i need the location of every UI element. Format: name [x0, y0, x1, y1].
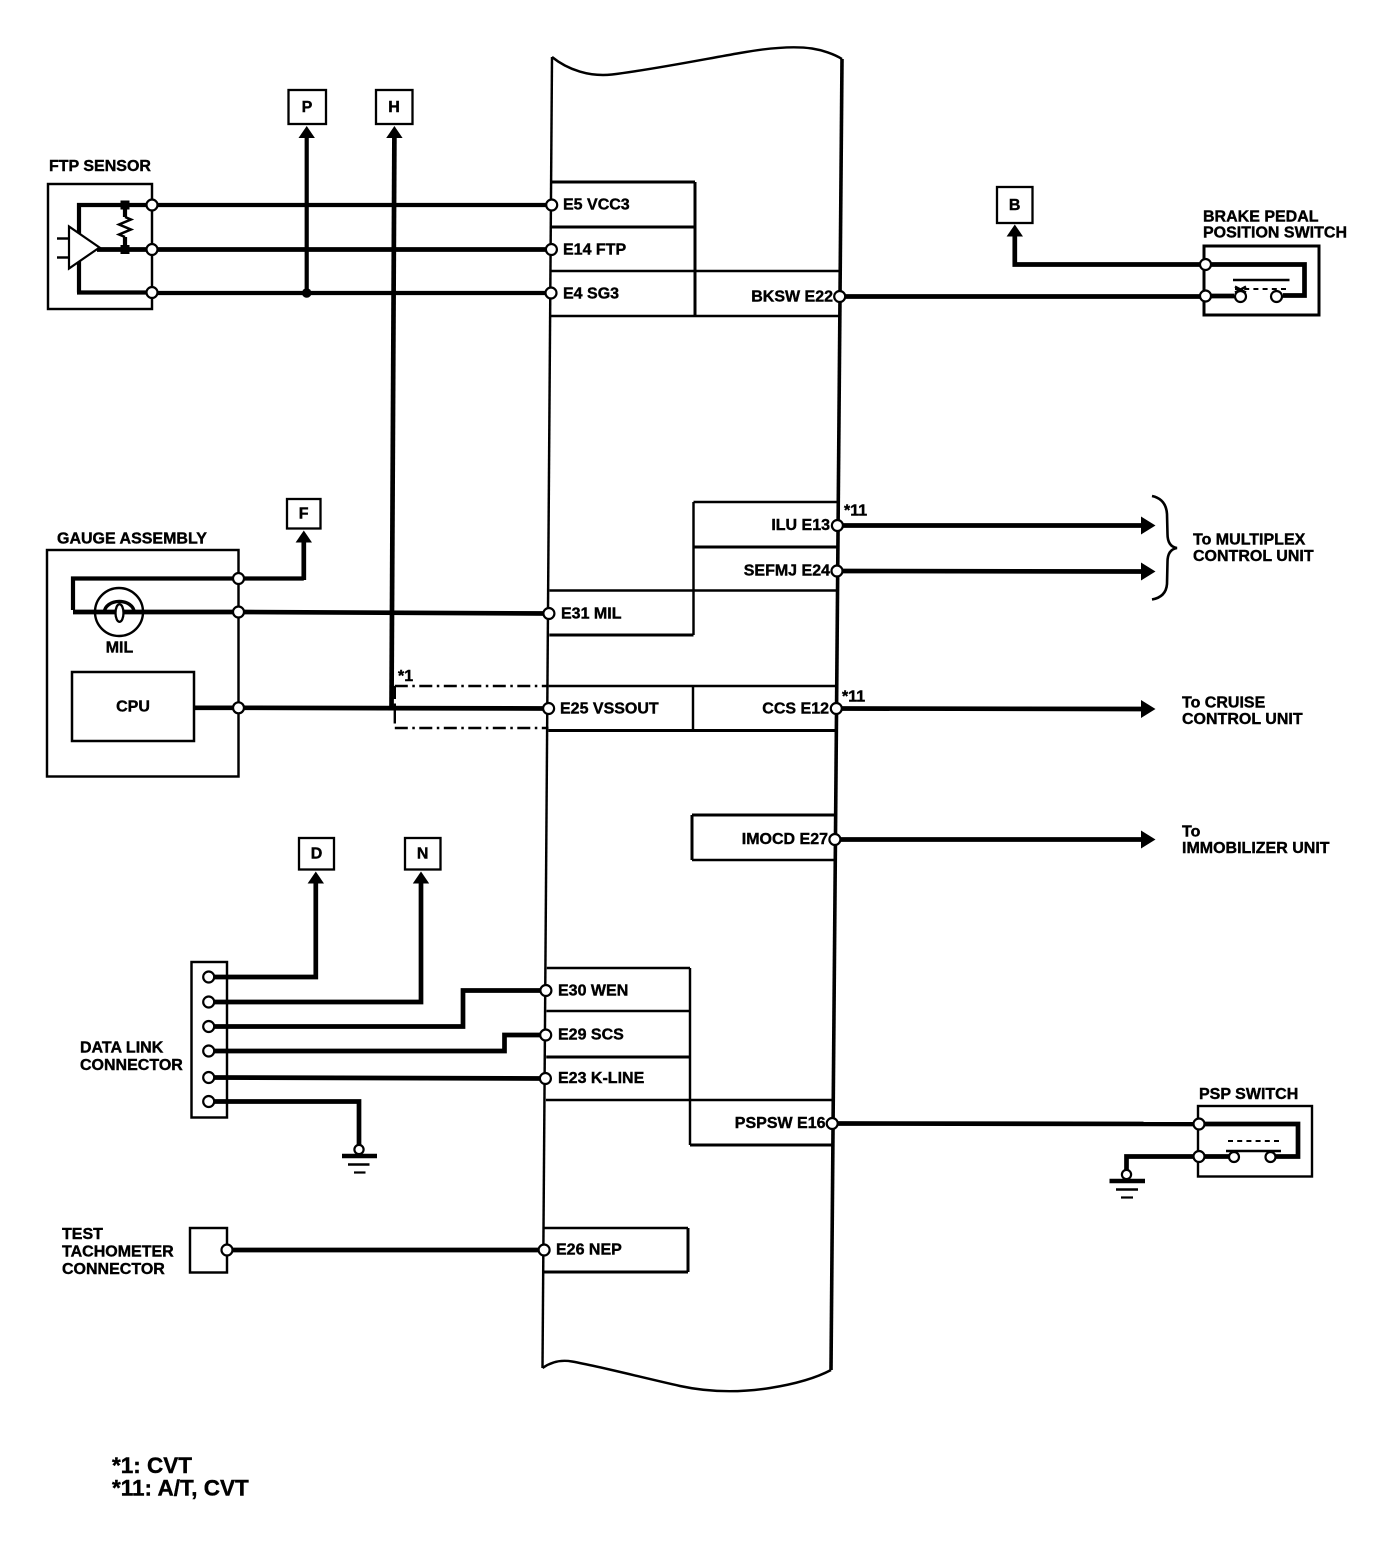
pin circle E29 SCS	[540, 1030, 551, 1041]
E23/PSPSW row line full width	[546, 1099, 833, 1101]
svg-text:SEFMJ E24: SEFMJ E24	[744, 563, 830, 580]
brake switch upper bar	[1233, 279, 1290, 281]
wire PSP switch to ground	[1127, 1157, 1200, 1171]
connector N box	[405, 838, 441, 870]
gauge internal wire to F	[73, 579, 239, 611]
svg-text:P: P	[302, 99, 313, 116]
svg-text:CPU: CPU	[116, 699, 150, 716]
svg-text:B: B	[1009, 197, 1021, 214]
svg-text:*1: CVT: *1: CVT	[112, 1453, 192, 1478]
PSP switch internal wire	[1199, 1124, 1298, 1157]
wire ILU E13 to multiplex	[837, 523, 1142, 528]
wire DLC pin5 to E23 K-LINE	[209, 1078, 546, 1079]
wire CPU to E25 VSSOUT	[244, 705, 549, 710]
PSP switch box	[1198, 1106, 1312, 1177]
data link connector box	[192, 962, 228, 1118]
FTP sensor pin 3	[147, 287, 158, 298]
svg-text:TACHOMETER: TACHOMETER	[62, 1244, 174, 1261]
ILU/SEFMJ row separator	[694, 546, 838, 549]
svg-text:FTP SENSOR: FTP SENSOR	[49, 158, 151, 175]
svg-text:BKSW E22: BKSW E22	[751, 289, 833, 306]
wire to connector P	[305, 135, 309, 293]
svg-text:E29 SCS: E29 SCS	[558, 1027, 624, 1044]
svg-text:H: H	[388, 99, 400, 116]
svg-text:DATA LINK: DATA LINK	[80, 1040, 164, 1057]
SEFMJ/E31 row line full width	[550, 589, 838, 591]
brake switch contact 1	[1235, 291, 1246, 302]
svg-text:E26 NEP: E26 NEP	[556, 1242, 622, 1259]
svg-text:E14 FTP: E14 FTP	[563, 242, 626, 259]
pin circle CCS E12	[831, 703, 842, 714]
pin row box E5/E14/E4 top line	[552, 181, 695, 184]
PSP switch terminal 1	[1194, 1119, 1205, 1130]
svg-text:TEST: TEST	[62, 1226, 103, 1243]
PSP switch contact 2	[1266, 1152, 1276, 1162]
brake switch terminal 2	[1200, 291, 1211, 302]
wire PSPSW E16 to PSP switch	[832, 1121, 1199, 1126]
brake switch contact 2	[1271, 291, 1282, 302]
pin circle E26 NEP	[539, 1245, 550, 1256]
ILU/SEFMJ row box top	[694, 501, 838, 503]
test tachometer connector box	[190, 1228, 227, 1273]
E30-E23 rows vertical divider	[689, 968, 691, 1145]
svg-text:IMOCD E27: IMOCD E27	[742, 831, 828, 848]
connector F box	[287, 499, 321, 529]
PSPSW row bottom line	[690, 1144, 832, 1147]
IMOCD row box top	[692, 814, 835, 817]
wire CCS E12 to cruise control	[836, 706, 1142, 711]
brake switch contact pivot	[1235, 287, 1246, 293]
PSP switch upper bar	[1226, 1150, 1281, 1152]
pin circle E31 MIL	[543, 608, 554, 619]
IMOCD row box bottom	[692, 859, 835, 861]
wire DLC pin6 to ground	[209, 1102, 359, 1146]
pin circle SEFMJ E24	[832, 566, 843, 577]
DLC ground symbol	[354, 1145, 363, 1154]
pin circle E4 SG3	[546, 288, 557, 299]
E30/E29 row separator	[547, 1010, 691, 1012]
svg-text:CONNECTOR: CONNECTOR	[80, 1057, 183, 1074]
svg-text:D: D	[311, 846, 323, 863]
wire DLC pin2 to connector N	[209, 881, 421, 1002]
E25/CCS row top line	[549, 685, 837, 687]
DLC pin circles	[203, 972, 214, 983]
E26 row box top	[544, 1227, 688, 1229]
brake switch terminal 1	[1200, 259, 1211, 270]
E25/CCS row bottom line	[548, 729, 836, 732]
FTP sensor pin 1	[147, 200, 158, 211]
E26 row box right edge	[687, 1228, 690, 1272]
svg-text:MIL: MIL	[106, 640, 134, 657]
E29/E23 row separator	[546, 1056, 690, 1059]
svg-text:*11: *11	[844, 503, 867, 520]
ILU/E31 rows vertical divider	[692, 502, 694, 635]
PSP switch terminal 2	[1194, 1151, 1205, 1162]
pin circle E25 VSSOUT	[543, 703, 554, 714]
FTP sensor pin 2	[147, 244, 158, 255]
svg-text:CONNECTOR: CONNECTOR	[62, 1261, 165, 1278]
wire FTP to E4 SG3	[157, 291, 551, 295]
junction dot P on E4 SG3 wire	[302, 288, 312, 298]
ECM/PCM band right edge	[831, 59, 842, 1370]
svg-text:E23 K-LINE: E23 K-LINE	[558, 1070, 645, 1087]
svg-text:IMMOBILIZER UNIT: IMMOBILIZER UNIT	[1182, 840, 1330, 857]
wire to connector B	[1015, 234, 1206, 265]
E26 row box bottom	[544, 1271, 688, 1274]
svg-text:BRAKE PEDAL: BRAKE PEDAL	[1203, 209, 1319, 226]
amplifier input stub 2	[57, 256, 69, 258]
svg-text:To CRUISE: To CRUISE	[1182, 695, 1266, 712]
pin circle BKSW E22	[834, 291, 845, 302]
svg-text:POSITION SWITCH: POSITION SWITCH	[1203, 225, 1347, 242]
wire IMOCD E27 to immobilizer	[835, 837, 1142, 842]
wire FTP to E14 FTP	[157, 247, 551, 252]
ECM/PCM band torn top edge	[552, 47, 842, 75]
svg-text:*11: A/T, CVT: *11: A/T, CVT	[112, 1476, 249, 1501]
gauge pin 3	[233, 702, 244, 713]
pin circle E14 FTP	[546, 244, 557, 255]
svg-text:GAUGE ASSEMBLY: GAUGE ASSEMBLY	[57, 531, 207, 548]
wire DLC pin4 to E29 SCS	[209, 1035, 546, 1051]
pin row separator E14/E4 full width	[551, 270, 840, 272]
wire to connector H (down to E25 VSSOUT wire)	[392, 135, 395, 709]
E30/E29/E23 row box top	[547, 967, 690, 969]
svg-text:PSP SWITCH: PSP SWITCH	[1199, 1086, 1298, 1103]
*1 alternative wiring dash-dot box	[395, 686, 549, 728]
brace for multiplex control unit	[1152, 496, 1177, 600]
wire DLC pin3 to E30 WEN	[209, 991, 546, 1027]
E25/CCS row vertical divider	[692, 686, 694, 731]
connector D box	[299, 838, 334, 870]
MIL lamp bulb	[95, 588, 143, 636]
svg-text:F: F	[299, 506, 309, 523]
connector B box	[997, 187, 1033, 223]
pin circle E5 VCC3	[546, 200, 557, 211]
PSP switch contact 1	[1229, 1152, 1239, 1162]
pin circle IMOCD E27	[829, 834, 840, 845]
test tach connector pin	[222, 1245, 233, 1256]
wire CPU to gauge edge	[194, 705, 239, 710]
PSP switch dashed travel line	[1228, 1140, 1280, 1142]
svg-text:To MULTIPLEX: To MULTIPLEX	[1193, 532, 1306, 549]
svg-text:*1: *1	[398, 668, 413, 685]
wire to connector F	[301, 540, 306, 580]
brake switch internal wire	[1206, 265, 1305, 296]
gauge pin 2	[233, 607, 244, 618]
svg-text:To: To	[1182, 824, 1201, 841]
svg-text:E30 WEN: E30 WEN	[558, 983, 628, 1000]
FTP sensor box	[48, 184, 152, 309]
E31 row bottom line	[549, 634, 693, 637]
svg-text:ILU E13: ILU E13	[771, 517, 830, 534]
pin circle ILU E13	[832, 520, 843, 531]
svg-text:CONTROL UNIT: CONTROL UNIT	[1193, 548, 1314, 565]
wire MIL to E31 MIL	[244, 612, 549, 614]
svg-text:PSPSW E16: PSPSW E16	[735, 1115, 826, 1132]
FTP sensor output wire	[97, 247, 152, 252]
amplifier triangle (FTP sensor)	[69, 227, 100, 269]
svg-text:E31 MIL: E31 MIL	[561, 606, 622, 623]
FTP sensor bottom internal wire	[77, 290, 152, 294]
pin row bottom line E4/BKSW full width	[551, 315, 840, 317]
svg-text:E25 VSSOUT: E25 VSSOUT	[560, 701, 659, 718]
pin circle E23 K-LINE	[540, 1073, 551, 1084]
junction dot resistor top	[121, 201, 130, 210]
connector H box	[376, 90, 413, 124]
MIL lamp wire	[73, 610, 239, 615]
wire test tach connector to E26 NEP	[227, 1248, 544, 1253]
pin row inner vertical divider	[694, 182, 697, 316]
gauge pin 1	[233, 573, 244, 584]
pin circle E30 WEN	[540, 985, 551, 996]
svg-text:E5 VCC3: E5 VCC3	[563, 197, 630, 214]
svg-text:N: N	[417, 846, 429, 863]
IMOCD row box left edge	[691, 815, 694, 860]
wire FTP to E5 VCC3	[157, 203, 552, 207]
amplifier input stub 1	[57, 237, 69, 239]
resistor (FTP sensor internal)	[123, 205, 127, 217]
PSP ground symbol	[1122, 1170, 1131, 1179]
svg-text:*11: *11	[842, 689, 865, 706]
gauge assembly box	[47, 550, 239, 777]
brake pedal position switch box	[1204, 246, 1319, 315]
wire DLC pin1 to connector D	[209, 881, 316, 977]
FTP sensor top internal wire	[79, 205, 152, 293]
pin row separator E5/E14	[551, 226, 695, 229]
connector P box	[289, 90, 327, 124]
brake switch dashed travel line	[1235, 288, 1289, 290]
pin circle PSPSW E16	[827, 1118, 838, 1129]
ECM/PCM band torn bottom edge	[543, 1361, 832, 1391]
wire SEFMJ E24 to multiplex	[837, 569, 1142, 574]
svg-text:E4 SG3: E4 SG3	[563, 286, 619, 303]
svg-text:CCS E12: CCS E12	[762, 701, 829, 718]
wire BKSW E22 to brake switch	[840, 294, 1206, 299]
svg-text:CONTROL UNIT: CONTROL UNIT	[1182, 711, 1303, 728]
junction dot resistor bottom	[121, 245, 130, 254]
CPU box	[72, 672, 194, 741]
ECM/PCM band left edge	[543, 57, 553, 1368]
